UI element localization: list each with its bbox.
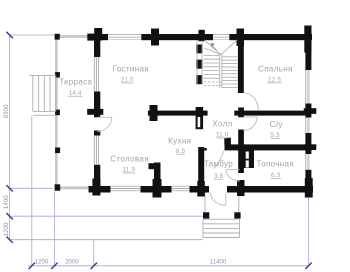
stub top wall x155 — [151, 29, 159, 46]
door bedroom: arc — [244, 93, 258, 111]
svg-text:14.4: 14.4 — [69, 90, 82, 97]
corner stub bottom-left — [92, 179, 100, 196]
terrace post top-left — [55, 34, 60, 40]
terrace bottom wall gray — [58, 186, 89, 189]
svg-text:1400: 1400 — [3, 195, 10, 209]
stair direction arrow — [212, 46, 216, 50]
svg-text:С/у: С/у — [270, 120, 283, 129]
svg-text:Столовая: Столовая — [110, 154, 149, 163]
tick 1200 left — [6, 237, 12, 243]
stair side thin lines at x197/x202 — [196, 41, 198, 85]
window bottom wall kitchen — [172, 185, 190, 187]
left wall segment top — [94, 34, 100, 57]
window right wall bedroom — [305, 70, 307, 104]
left wall segment middle — [94, 92, 100, 118]
svg-text:1200: 1200 — [35, 259, 49, 266]
porch post right — [234, 212, 240, 218]
porch side lines — [204, 193, 206, 219]
stair center divider — [219, 55, 221, 89]
interior wall x157 piece (dining/kitchen) — [154, 163, 161, 193]
right wall segment 2 — [305, 104, 311, 118]
stair west wall squares — [196, 45, 202, 54]
window right wall bathroom — [305, 118, 307, 134]
svg-text:1200: 1200 — [3, 222, 10, 236]
shaft white slot x201 — [198, 117, 201, 127]
tick 1400 — [6, 213, 12, 219]
tick bottom x32 — [29, 263, 35, 269]
svg-text:2000: 2000 — [65, 259, 79, 266]
stair winder fan lines — [204, 40, 221, 55]
terrace post bottom-left — [55, 184, 61, 190]
terrace west wall gray — [55, 40, 58, 187]
extension line house right wall x309 — [308, 196, 310, 267]
extension line house left wall x94 — [93, 240, 95, 267]
stair bottom dashed treads — [204, 81, 222, 83]
door terrace-dining: arc — [98, 117, 112, 131]
interior wall x241 segment y129-173 — [238, 130, 244, 174]
stub x157 left — [149, 163, 155, 169]
door boiler room: arc — [226, 170, 240, 181]
terrace post west y74 — [55, 72, 60, 77]
window bottom wall dining room — [111, 185, 141, 187]
right wall segment 3 — [305, 133, 311, 154]
interior wall x241 stair east — [238, 40, 244, 93]
porch steps — [203, 219, 240, 237]
terrace entry steps box — [29, 74, 56, 76]
terrace top wall gray — [60, 35, 89, 38]
window left wall living room — [93, 57, 95, 92]
door terrace-dining: leaf — [98, 116, 112, 118]
door bathroom: arc — [243, 117, 257, 131]
terrace post west y112 — [55, 110, 60, 116]
right wall segment top — [305, 34, 311, 70]
dimension extension y188 terrace bottom — [10, 187, 53, 189]
window left wall dining room — [93, 136, 95, 165]
stub bottom wall x241 — [237, 180, 245, 196]
door bathroom: leaf — [243, 116, 257, 118]
stair right flight treads — [222, 56, 238, 58]
right wall segment bottom — [305, 170, 311, 193]
door boiler room: leaf — [226, 168, 240, 170]
porch post left — [203, 212, 209, 218]
interior wall x241 segment y107-117 — [238, 108, 244, 118]
svg-text:12.5: 12.5 — [268, 76, 281, 83]
svg-text:Холл: Холл — [212, 119, 232, 128]
interior wall x201 (vestibule west) — [198, 147, 204, 193]
corner stub top-left horizontal — [87, 34, 95, 41]
chimney flue slot 2 — [246, 160, 249, 167]
dimension line bottom horizontal chain — [28, 265, 309, 267]
svg-text:8300: 8300 — [3, 104, 10, 118]
window top wall living room — [108, 34, 141, 36]
dimension extension y240 steps — [10, 239, 203, 241]
bottom wall segment left — [89, 186, 111, 193]
chimney block with flues — [244, 150, 255, 168]
interior wall y113 left segment (kitchen top) — [148, 111, 208, 116]
svg-text:Тамбур: Тамбур — [204, 160, 233, 169]
chimney flue slot 1 — [246, 152, 249, 159]
shaft block x201 at hall — [196, 107, 204, 129]
door hall-vestibule: arc — [214, 151, 224, 169]
stub y113 x155 — [150, 105, 158, 121]
stub top wall x201 — [199, 30, 205, 41]
top wall segment left — [95, 34, 108, 40]
svg-text:Спальня: Спальня — [258, 64, 293, 73]
stub y147 left end up — [224, 138, 231, 145]
bottom wall segment right of kitchen window — [190, 186, 210, 193]
terrace post west y150 — [55, 148, 60, 154]
svg-text:11.0: 11.0 — [216, 132, 229, 139]
extension line terrace wall x53 — [53, 191, 55, 267]
extension line stairs left x32 — [31, 116, 33, 267]
interior wall y113 right segment — [234, 111, 305, 116]
corner stub top-right vertical — [304, 26, 311, 53]
svg-text:11400: 11400 — [210, 259, 227, 266]
interior wall y147 (bathroom/boiler divider) — [225, 144, 306, 150]
window right wall boiler room — [305, 154, 307, 170]
svg-text:6.3: 6.3 — [271, 172, 281, 179]
stair left flight treads — [204, 54, 220, 56]
svg-text:3.8: 3.8 — [214, 173, 224, 180]
svg-text:Кухня: Кухня — [168, 137, 191, 146]
bottom wall segment right — [227, 186, 313, 193]
stub bottom wall x201 — [197, 181, 205, 197]
svg-text:Топочная: Топочная — [257, 159, 294, 168]
dimension extension top y35 — [10, 34, 54, 36]
svg-text:Гостиная: Гостиная — [113, 64, 149, 73]
svg-text:11.9: 11.9 — [123, 167, 136, 174]
dimension extension y216 porch — [10, 215, 205, 217]
bottom wall segment center — [141, 186, 172, 193]
tick top-left corner — [6, 32, 12, 38]
stub top wall x241 — [237, 29, 245, 47]
dimension line left vertical 8300 chain — [9, 35, 11, 240]
tick 8300 bottom — [6, 185, 12, 191]
svg-text:21.0: 21.0 — [121, 77, 134, 84]
top wall segment right — [229, 34, 312, 40]
tick bottom x309 — [305, 263, 311, 269]
window top wall stair landing — [213, 34, 229, 36]
nub y147 wall west log end — [204, 148, 207, 151]
door entrance: arc — [211, 193, 226, 206]
tick bottom x94 — [91, 263, 97, 269]
top wall segment center — [141, 34, 213, 40]
stub right wall y147 — [304, 144, 317, 150]
svg-text:Терраса: Терраса — [59, 77, 92, 86]
left wall segment bottom — [94, 165, 100, 195]
stub right wall y113 — [304, 108, 317, 114]
tick bottom x53 — [51, 263, 57, 269]
stub left wall y113 — [87, 109, 103, 115]
stub bottom wall x157 — [153, 179, 162, 198]
corner stub bottom-right — [305, 178, 313, 198]
left wall small segment below door — [94, 131, 100, 136]
door entrance: leaf — [225, 193, 227, 206]
corner stub top-left vertical — [94, 28, 102, 41]
